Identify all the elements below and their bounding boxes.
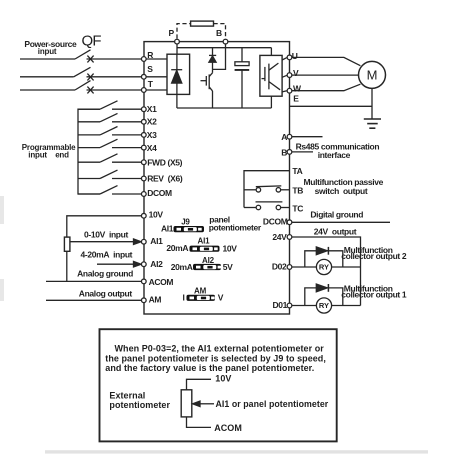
svg-text:RY: RY xyxy=(319,301,329,310)
svg-text:U: U xyxy=(292,51,298,61)
brake diode xyxy=(209,48,216,70)
terminal A xyxy=(287,134,292,139)
svg-text:B: B xyxy=(281,148,287,158)
terminal S xyxy=(141,74,146,79)
note wiper arrow xyxy=(198,403,214,405)
breaker blade T xyxy=(75,81,91,90)
svg-text:Analog ground: Analog ground xyxy=(77,269,133,279)
svg-text:DCOM: DCOM xyxy=(263,217,288,227)
D02 diode loop xyxy=(305,251,343,267)
external potentiometer xyxy=(64,237,70,251)
switch X1 xyxy=(78,101,141,109)
terminal ACOM xyxy=(141,279,146,284)
power line R xyxy=(20,58,75,60)
terminal B rs485 xyxy=(287,150,292,155)
wire W to motor xyxy=(292,84,360,91)
terminal D02 xyxy=(287,265,292,270)
relay contact TC xyxy=(244,202,290,210)
terminal DCOM left xyxy=(141,192,146,197)
brake IGBT Q1 xyxy=(201,69,213,108)
terminal X3 xyxy=(141,133,146,138)
switch X4 xyxy=(78,139,141,147)
wire T to terminal xyxy=(87,89,142,91)
jumper AI2 xyxy=(193,264,221,270)
analog 10V wire xyxy=(67,216,142,237)
svg-text:S: S xyxy=(147,64,153,74)
svg-text:W: W xyxy=(293,84,302,94)
svg-text:Digital ground: Digital ground xyxy=(310,209,363,219)
digital input bus xyxy=(78,109,100,194)
svg-text:B: B xyxy=(216,28,222,38)
breaker X R xyxy=(87,56,93,63)
switch REV xyxy=(78,170,141,178)
svg-text:I: I xyxy=(182,292,184,302)
terminal FWD xyxy=(141,160,146,165)
svg-text:AI1: AI1 xyxy=(161,224,174,234)
svg-text:Analog output: Analog output xyxy=(79,288,133,298)
terminal 24V xyxy=(287,235,292,240)
svg-text:the panel potentiometer is sel: the panel potentiometer is selected by J… xyxy=(105,354,326,364)
svg-text:X4: X4 xyxy=(147,143,157,153)
D02 diode xyxy=(316,247,328,255)
dashed link P to resistor xyxy=(177,24,191,39)
wire V to motor xyxy=(292,74,359,76)
svg-text:collector output 2: collector output 2 xyxy=(341,251,407,261)
svg-text:AI1: AI1 xyxy=(150,236,163,246)
dashed link resistor to B xyxy=(214,24,226,39)
wire R to terminal xyxy=(87,58,142,60)
svg-text:R: R xyxy=(147,50,153,60)
svg-text:When P0-03=2, the AI1 external: When P0-03=2, the AI1 external potentiom… xyxy=(115,344,325,354)
wire inverter to V xyxy=(282,75,287,77)
wire U to motor xyxy=(292,57,360,65)
svg-text:ACOM: ACOM xyxy=(214,423,242,433)
svg-text:0-10V input: 0-10V input xyxy=(84,229,128,239)
power line S xyxy=(20,76,74,78)
svg-text:5V: 5V xyxy=(223,262,233,272)
svg-text:AM: AM xyxy=(194,287,207,296)
svg-text:AI2: AI2 xyxy=(202,256,215,265)
switch DCOM xyxy=(78,186,141,194)
svg-text:10V: 10V xyxy=(215,374,231,384)
wire rectifier to DC- bus xyxy=(176,94,178,108)
svg-text:M: M xyxy=(367,68,378,83)
rectifier diode xyxy=(171,54,182,94)
terminal X1 xyxy=(141,107,146,112)
svg-text:DCOM: DCOM xyxy=(147,188,172,198)
svg-text:TA: TA xyxy=(292,166,302,176)
svg-text:P: P xyxy=(169,28,175,38)
switch FWD xyxy=(78,154,141,162)
svg-text:A: A xyxy=(281,132,287,142)
wire S to terminal xyxy=(87,76,142,78)
inverter box xyxy=(260,48,282,108)
svg-text:end: end xyxy=(55,150,69,159)
wire inverter to U xyxy=(282,58,287,60)
terminal P xyxy=(175,39,180,44)
wire pot to ACOM xyxy=(66,251,68,281)
svg-text:24V: 24V xyxy=(272,232,287,242)
terminal T xyxy=(141,88,146,93)
scan artifact bottom stripe xyxy=(45,450,428,453)
wire P riser xyxy=(176,44,178,54)
svg-text:AI1: AI1 xyxy=(198,237,211,246)
terminal 10V xyxy=(141,213,146,218)
relay RY D02 xyxy=(316,259,331,274)
wire B xyxy=(292,151,313,153)
breaker blade S xyxy=(74,67,91,77)
wire motor to ground xyxy=(371,88,373,119)
wire digital ground xyxy=(292,221,390,223)
wire T to rectifier xyxy=(146,89,167,91)
svg-text:D01: D01 xyxy=(272,300,287,310)
wire B riser xyxy=(213,44,226,69)
terminal V xyxy=(287,73,292,78)
D01 diode loop xyxy=(305,288,343,306)
svg-text:V: V xyxy=(293,68,299,78)
svg-text:AM: AM xyxy=(149,294,162,304)
switch X3 xyxy=(78,127,141,135)
wire A xyxy=(292,136,322,138)
svg-text:collector output 1: collector output 1 xyxy=(341,290,407,300)
jumper AI1 xyxy=(190,246,220,252)
svg-text:T: T xyxy=(148,79,154,89)
svg-text:and the factory value is the p: and the factory value is the panel poten… xyxy=(105,363,314,373)
switch X2 xyxy=(78,113,141,121)
svg-text:J9: J9 xyxy=(181,218,190,227)
svg-text:potentiometer: potentiometer xyxy=(209,223,262,233)
terminal DCOM right xyxy=(287,220,292,225)
terminal R xyxy=(141,57,146,62)
svg-text:switch output: switch output xyxy=(315,186,368,196)
rectifier box xyxy=(167,54,190,94)
braking resistor xyxy=(191,21,214,26)
svg-text:AI2: AI2 xyxy=(150,259,163,269)
terminal B (brake) xyxy=(223,39,228,44)
note potentiometer xyxy=(181,390,192,417)
D01 diode xyxy=(316,284,328,292)
wire 24V rail xyxy=(292,237,360,306)
svg-text:20mA: 20mA xyxy=(171,262,193,272)
terminal X2 xyxy=(141,119,146,124)
wire R to rectifier xyxy=(146,58,167,60)
wire D02 xyxy=(292,266,360,268)
jumper AM xyxy=(187,295,216,301)
power line T xyxy=(20,89,75,91)
ground xyxy=(364,119,381,128)
motor M xyxy=(359,61,386,88)
wire D01 xyxy=(292,305,360,307)
wire analog ground xyxy=(46,280,141,282)
terminal AI1 xyxy=(141,239,146,244)
wire analog output xyxy=(46,299,141,301)
note ACOM wire xyxy=(187,417,212,428)
svg-text:interface: interface xyxy=(318,150,351,160)
terminal AI2 xyxy=(141,262,146,267)
svg-text:D02: D02 xyxy=(272,262,287,272)
relay common TA wire xyxy=(244,171,290,208)
wire E line xyxy=(290,105,372,107)
bus capacitor xyxy=(235,48,250,108)
breaker X T xyxy=(87,87,93,94)
note box xyxy=(100,329,337,441)
svg-text:potentiometer: potentiometer xyxy=(109,400,170,410)
svg-text:X1: X1 xyxy=(147,104,157,114)
svg-text:FWD (X5): FWD (X5) xyxy=(147,157,182,167)
svg-text:10V: 10V xyxy=(149,210,164,220)
terminal REV xyxy=(141,176,146,181)
svg-text:24V output: 24V output xyxy=(314,227,357,237)
svg-text:input: input xyxy=(38,47,57,56)
svg-text:input: input xyxy=(28,150,47,159)
svg-text:QF: QF xyxy=(82,32,102,49)
wire S to rectifier xyxy=(146,76,167,78)
breaker X S xyxy=(87,74,93,81)
svg-text:10V: 10V xyxy=(223,243,238,253)
relay RY D01 xyxy=(316,298,331,313)
terminal U xyxy=(287,55,292,60)
svg-text:External: External xyxy=(109,390,145,400)
inverter IGBT symbol xyxy=(262,63,281,90)
svg-text:RY: RY xyxy=(319,263,329,272)
main block outline xyxy=(144,42,290,314)
svg-text:TC: TC xyxy=(292,204,303,214)
terminal X4 xyxy=(141,145,146,150)
svg-text:X3: X3 xyxy=(147,130,157,140)
breaker blade R xyxy=(75,50,91,59)
wire DC- bus xyxy=(177,107,272,109)
svg-text:X2: X2 xyxy=(147,117,157,127)
terminal AM xyxy=(141,298,146,303)
relay contact TB xyxy=(244,186,290,192)
jumper J9 xyxy=(174,226,205,232)
svg-text:V: V xyxy=(218,293,224,303)
svg-text:ACOM: ACOM xyxy=(149,277,174,287)
wire DC+ bus xyxy=(177,47,271,49)
svg-text:20mA: 20mA xyxy=(166,243,188,253)
svg-text:TB: TB xyxy=(292,186,303,196)
wire 0-10V input xyxy=(70,241,135,243)
svg-text:REV (X6): REV (X6) xyxy=(147,173,183,183)
terminal D01 xyxy=(287,303,292,308)
wire 4-20mA input xyxy=(97,263,135,265)
note 10V wire xyxy=(187,379,212,390)
svg-text:4-20mA input: 4-20mA input xyxy=(81,250,133,260)
svg-text:E: E xyxy=(293,94,299,104)
wire inverter to W xyxy=(282,91,287,92)
svg-text:AI1 or panel potentiometer: AI1 or panel potentiometer xyxy=(216,399,329,409)
terminal W xyxy=(287,88,292,93)
